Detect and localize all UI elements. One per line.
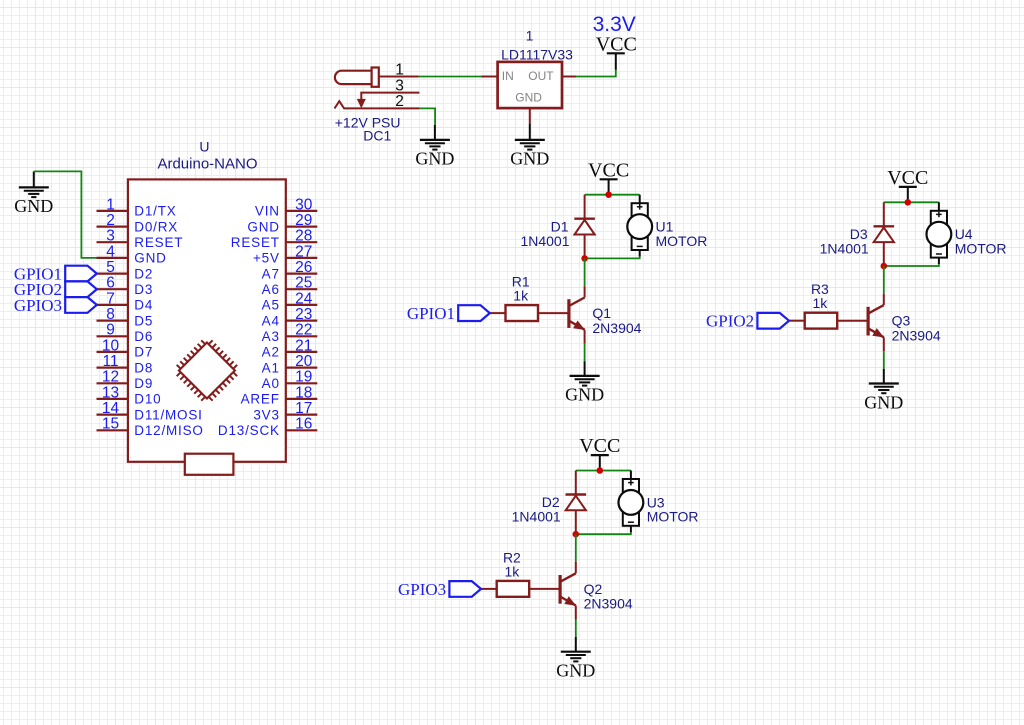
- IC chip glyph inside U: [177, 340, 237, 400]
- svg-text:17: 17: [295, 400, 312, 417]
- pin 30 (VIN) of U: [255, 196, 317, 218]
- svg-text:11: 11: [102, 353, 118, 370]
- svg-text:13: 13: [102, 384, 119, 401]
- svg-text:23: 23: [295, 306, 312, 323]
- svg-text:D3: D3: [850, 226, 868, 242]
- svg-text:18: 18: [295, 384, 312, 401]
- net flag GPIO3 at U pin 7: [14, 296, 97, 315]
- svg-text:1k: 1k: [505, 563, 521, 579]
- svg-text:2N3904: 2N3904: [892, 327, 941, 343]
- wire motor bottom to diode anode (Q1 circuit): [585, 257, 640, 259]
- svg-text:29: 29: [295, 212, 312, 229]
- svg-text:A6: A6: [262, 282, 280, 297]
- svg-text:22: 22: [295, 322, 312, 339]
- svg-text:3: 3: [106, 228, 115, 245]
- svg-text:VIN: VIN: [255, 204, 280, 219]
- pin 16 (D13/SCK) of U: [218, 416, 317, 438]
- svg-text:3: 3: [395, 77, 404, 94]
- resistor R1 1k: [506, 274, 539, 321]
- pin 21 (A2) of U: [262, 337, 318, 359]
- pin 23 (A4) of U: [262, 306, 318, 328]
- junction at VCC (Q1 circuit): [605, 191, 612, 198]
- svg-text:A4: A4: [262, 313, 280, 328]
- pin 13 (D10) of U: [97, 384, 162, 406]
- svg-text:GPIO2: GPIO2: [706, 312, 754, 331]
- svg-text:D2: D2: [542, 494, 560, 510]
- svg-text:GND: GND: [247, 219, 279, 234]
- ground at DC1: [434, 125, 436, 140]
- svg-text:Q3: Q3: [892, 313, 911, 329]
- ground symbol at Arduino GND pin: [33, 171, 35, 187]
- wire DC1 pin1 to regulator IN: [419, 76, 482, 78]
- wire GPIO1 flag to R1: [490, 312, 506, 314]
- svg-text:+5V: +5V: [253, 251, 280, 266]
- pin 27 (+5V) of U: [253, 243, 317, 265]
- svg-text:A5: A5: [262, 298, 280, 313]
- svg-text:1: 1: [106, 196, 115, 213]
- svg-text:D5: D5: [134, 313, 153, 328]
- svg-text:1N4001: 1N4001: [820, 241, 869, 257]
- svg-text:MOTOR: MOTOR: [656, 233, 708, 249]
- pin GND of regulator: [529, 108, 531, 124]
- ground GND (Q2 circuit): [556, 652, 595, 681]
- net flag GPIO1 (drives Q1): [407, 304, 490, 323]
- wire emitter of Q3 to ground: [883, 351, 885, 369]
- wire R1 to base of Q1: [538, 312, 569, 314]
- pin 7 (D4) of U: [97, 290, 154, 312]
- pin 5 (D2) of U: [97, 259, 154, 281]
- svg-text:9: 9: [106, 322, 115, 339]
- svg-text:5: 5: [106, 259, 115, 276]
- svg-text:D2: D2: [134, 266, 153, 281]
- svg-text:2N3904: 2N3904: [584, 596, 633, 612]
- svg-text:VCC: VCC: [588, 159, 629, 181]
- motor U4: [927, 202, 1007, 264]
- svg-text:28: 28: [295, 228, 312, 245]
- svg-text:A0: A0: [262, 376, 280, 391]
- wire junction to collector of Q1: [584, 258, 586, 286]
- wire regulator GND to ground: [529, 124, 531, 140]
- svg-text:VCC: VCC: [887, 167, 928, 189]
- svg-text:D9: D9: [134, 376, 153, 391]
- svg-text:LD1117V33: LD1117V33: [501, 47, 573, 63]
- svg-text:6: 6: [106, 275, 115, 292]
- svg-text:D11/MOSI: D11/MOSI: [134, 407, 202, 422]
- diode D2 1N4001: [512, 471, 586, 535]
- svg-text:AREF: AREF: [241, 392, 280, 407]
- pin 1 of DC1: [379, 61, 419, 78]
- svg-text:GPIO3: GPIO3: [398, 580, 446, 599]
- svg-text:GND: GND: [515, 91, 542, 105]
- pin OUT of regulator: [562, 76, 576, 78]
- wire motor bottom to diode anode (Q3 circuit): [884, 264, 939, 266]
- pin 20 (A1) of U: [262, 353, 318, 375]
- svg-text:GPIO3: GPIO3: [14, 296, 62, 315]
- pin 29 (GND) of U: [247, 212, 317, 234]
- svg-text:D0/RX: D0/RX: [134, 219, 178, 234]
- wire motor bottom to diode anode (Q2 circuit): [576, 532, 631, 534]
- svg-text:8: 8: [106, 306, 115, 323]
- stub to VCC symbol: [615, 53, 617, 70]
- pin 18 (AREF) of U: [241, 384, 318, 406]
- svg-text:A3: A3: [262, 329, 280, 344]
- svg-text:25: 25: [295, 275, 312, 292]
- svg-text:MOTOR: MOTOR: [647, 509, 699, 525]
- pin 17 (3V3) of U: [253, 400, 317, 422]
- svg-text:GND: GND: [565, 385, 604, 405]
- svg-text:2N3904: 2N3904: [592, 320, 641, 336]
- diode D3 1N4001: [820, 202, 894, 266]
- svg-text:Q2: Q2: [584, 581, 603, 597]
- wire emitter of Q2 to ground: [575, 620, 577, 638]
- svg-text:27: 27: [295, 243, 312, 260]
- wire junction to collector of Q3: [883, 266, 885, 294]
- pin 19 (A0) of U: [262, 369, 318, 391]
- pin 12 (D9) of U: [97, 369, 154, 391]
- wire R2 to base of Q2: [529, 588, 560, 590]
- wire GPIO3 flag to R2: [481, 588, 497, 590]
- svg-text:1: 1: [395, 61, 404, 78]
- svg-text:12: 12: [102, 369, 119, 386]
- svg-text:10: 10: [102, 337, 120, 354]
- svg-text:D8: D8: [134, 360, 153, 375]
- svg-text:D12/MISO: D12/MISO: [134, 423, 203, 438]
- svg-text:1N4001: 1N4001: [512, 509, 561, 525]
- svg-text:VCC: VCC: [579, 435, 620, 457]
- svg-text:IN: IN: [502, 69, 514, 83]
- ground stub (Q3): [883, 369, 885, 384]
- svg-text:OUT: OUT: [528, 69, 554, 83]
- junction below D3: [881, 263, 888, 270]
- wire VCC rail (Q1 circuit): [585, 194, 640, 196]
- svg-text:D4: D4: [134, 298, 153, 313]
- svg-text:14: 14: [102, 400, 120, 417]
- resistor R3 1k: [805, 281, 838, 328]
- pin 4 (GND) of U: [97, 243, 167, 265]
- motor U1: [627, 195, 707, 257]
- svg-text:15: 15: [102, 416, 119, 433]
- pin 15 (D12/MISO) of U: [97, 416, 204, 438]
- svg-text:D7: D7: [134, 345, 153, 360]
- wire ground to Arduino pin 4 GND: [34, 171, 97, 258]
- power VCC (Q2 circuit): [579, 435, 620, 471]
- svg-text:Arduino-NANO: Arduino-NANO: [157, 155, 257, 172]
- junction at VCC (Q3 circuit): [905, 199, 912, 206]
- junction below D2: [573, 531, 580, 538]
- svg-text:1: 1: [526, 27, 534, 43]
- svg-text:3.3V: 3.3V: [593, 13, 636, 36]
- svg-text:21: 21: [295, 337, 312, 354]
- motor U3: [619, 471, 699, 533]
- ground GND (Q1 circuit): [565, 376, 604, 405]
- svg-text:GND: GND: [510, 149, 549, 169]
- pin IN of regulator: [482, 76, 498, 78]
- pin 1 (D1/TX) of U: [97, 196, 177, 218]
- resistor R2 1k: [497, 549, 530, 596]
- svg-text:GND: GND: [556, 661, 595, 681]
- svg-text:RESET: RESET: [134, 235, 183, 250]
- diode D1 1N4001: [520, 195, 594, 259]
- svg-text:GND: GND: [864, 392, 903, 412]
- svg-text:1N4001: 1N4001: [520, 233, 569, 249]
- svg-text:19: 19: [295, 369, 312, 386]
- wire regulator OUT to VCC: [576, 70, 616, 77]
- svg-text:4: 4: [106, 243, 115, 260]
- svg-text:A1: A1: [262, 360, 280, 375]
- pin 26 (A7) of U: [262, 259, 318, 281]
- svg-text:30: 30: [295, 196, 313, 213]
- svg-text:MOTOR: MOTOR: [955, 241, 1007, 257]
- svg-text:1k: 1k: [813, 295, 829, 311]
- transistor Q3 2N3904: [868, 294, 941, 352]
- pin 2 (D0/RX) of U: [97, 212, 179, 234]
- svg-text:24: 24: [295, 290, 313, 307]
- svg-text:A7: A7: [262, 266, 280, 281]
- svg-text:1k: 1k: [513, 288, 529, 304]
- svg-text:U: U: [199, 139, 209, 155]
- junction below D1: [581, 255, 588, 262]
- net flag GPIO2 (drives Q3): [706, 312, 789, 331]
- svg-text:20: 20: [295, 353, 313, 370]
- wire VCC rail (Q2 circuit): [576, 470, 631, 472]
- svg-text:D6: D6: [134, 329, 153, 344]
- pin 14 (D11/MOSI) of U: [97, 400, 203, 422]
- MCU U Arduino-NANO body: [128, 179, 286, 461]
- junction at VCC (Q2 circuit): [597, 467, 604, 474]
- svg-text:GPIO1: GPIO1: [407, 304, 455, 323]
- svg-text:D10: D10: [134, 392, 161, 407]
- svg-text:DC1: DC1: [363, 127, 391, 143]
- wire DC1 pin2 to ground: [419, 108, 435, 125]
- svg-text:3V3: 3V3: [253, 407, 279, 422]
- net flag GPIO2 at U pin 6: [14, 280, 97, 299]
- svg-text:GND: GND: [14, 196, 53, 216]
- wire emitter of Q1 to ground: [584, 344, 586, 362]
- pin 10 (D7) of U: [97, 337, 154, 359]
- pin 22 (A3) of U: [262, 322, 318, 344]
- svg-text:GND: GND: [415, 149, 454, 169]
- svg-text:VCC: VCC: [596, 34, 637, 56]
- wire GPIO2 flag to R3: [789, 320, 805, 322]
- ground stub (Q2): [575, 637, 577, 652]
- connector DC1 (+12V PSU barrel jack): [335, 68, 420, 109]
- pin 8 (D5) of U: [97, 306, 154, 328]
- power VCC (Q1 circuit): [588, 159, 629, 195]
- pin 3 (RESET) of U: [97, 228, 184, 250]
- ground GND (Q3 circuit): [864, 384, 903, 413]
- wire VCC rail (Q3 circuit): [884, 201, 939, 203]
- pin 25 (A6) of U: [262, 275, 318, 298]
- ground symbol GND (regulator): [510, 140, 549, 169]
- svg-text:RESET: RESET: [231, 235, 280, 250]
- pin 24 (A5) of U: [262, 290, 318, 312]
- wire R3 to base of Q3: [837, 320, 868, 322]
- transistor Q1 2N3904: [569, 286, 642, 344]
- svg-text:D1/TX: D1/TX: [134, 204, 176, 219]
- ground GND (Arduino): [14, 187, 53, 216]
- svg-text:2: 2: [106, 212, 115, 229]
- svg-text:2: 2: [395, 93, 404, 110]
- svg-text:Q1: Q1: [592, 305, 611, 321]
- transistor Q2 2N3904: [560, 562, 633, 620]
- pin 6 (D3) of U: [97, 275, 154, 298]
- svg-text:D13/SCK: D13/SCK: [218, 423, 280, 438]
- voltage regulator 1 LD1117V33: [498, 27, 574, 108]
- pin 28 (RESET) of U: [231, 228, 318, 250]
- USB connector glyph of U: [185, 454, 234, 475]
- svg-text:D1: D1: [551, 218, 569, 234]
- ground stub (Q1): [584, 361, 586, 376]
- pin 11 (D8) of U: [97, 353, 154, 375]
- svg-text:A2: A2: [262, 345, 280, 360]
- svg-text:7: 7: [106, 290, 115, 307]
- svg-text:D3: D3: [134, 282, 153, 297]
- svg-text:GND: GND: [134, 251, 166, 266]
- wire junction to collector of Q2: [575, 534, 577, 562]
- net flag GPIO3 (drives Q2): [398, 580, 481, 599]
- power symbol VCC 3.3V: [596, 34, 637, 56]
- pin 9 (D6) of U: [97, 322, 154, 344]
- ground symbol GND (DC1): [415, 140, 454, 169]
- svg-text:26: 26: [295, 259, 312, 276]
- svg-text:16: 16: [295, 416, 312, 433]
- net flag GPIO1 at U pin 5: [14, 265, 97, 284]
- power VCC (Q3 circuit): [887, 167, 928, 203]
